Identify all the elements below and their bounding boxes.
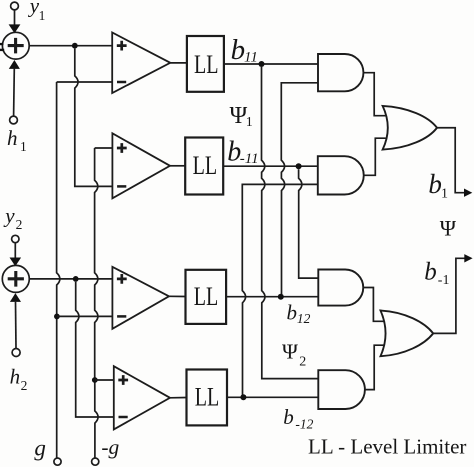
level limiter LL2: [185, 138, 223, 195]
OR gate O1: [383, 106, 437, 150]
wire y1 stem: [14, 10, 16, 25]
svg-text:12: 12: [297, 311, 311, 326]
wire -g node to U4 plus: [95, 379, 114, 381]
terminal h2: [12, 349, 20, 357]
svg-text:h: h: [10, 365, 21, 389]
wire s2 vertical to U4 minus (jog over y316): [76, 282, 114, 417]
terminal y1: [11, 2, 19, 10]
node b-11 junction: [296, 163, 302, 169]
svg-text:LL: LL: [194, 50, 219, 79]
level limiter LL3: [186, 270, 227, 324]
wire g line horizontal to U1 minus: [57, 81, 113, 83]
wire U1 to LL1: [170, 62, 187, 64]
wire h1 stem: [13, 69, 16, 117]
level limiter LL4: [187, 370, 228, 426]
svg-text:-12: -12: [295, 416, 313, 431]
node g to U3 minus: [54, 314, 60, 320]
node b12 junction: [278, 294, 284, 300]
wire -g line horizontal to U2 plus: [95, 147, 113, 149]
arrow b-1: [464, 254, 472, 262]
svg-text:1: 1: [20, 139, 27, 154]
terminal g: [54, 458, 61, 465]
wire G2 input2 from b-12 bus: [242, 184, 317, 397]
wire LL4 output b-12 to AND G4: [227, 396, 318, 398]
svg-text:1: 1: [246, 115, 253, 130]
wire U3 to LL3: [169, 295, 186, 297]
svg-text:LL: LL: [194, 282, 219, 311]
AND gate G1: [318, 54, 363, 91]
node s1 junction: [72, 43, 78, 49]
wire G3 output to OR O2 top: [363, 288, 384, 322]
svg-text:g: g: [34, 436, 46, 461]
svg-text:Ψ: Ψ: [440, 215, 457, 240]
terminal -g: [92, 458, 99, 465]
svg-text:b: b: [283, 405, 294, 429]
svg-text:b: b: [424, 259, 437, 286]
node b-12 junction: [240, 394, 246, 400]
svg-text:2: 2: [21, 378, 28, 393]
wire G2 output to OR O1 bottom: [364, 138, 386, 175]
wire LL3 output b12 to AND G3: [226, 296, 318, 298]
svg-text:b: b: [287, 301, 298, 325]
arrow b1: [464, 189, 472, 197]
svg-text:h: h: [7, 126, 18, 150]
wire U4 to LL4: [170, 397, 187, 399]
svg-text:Ψ: Ψ: [282, 340, 298, 364]
svg-text:2: 2: [16, 217, 23, 232]
wire G1 output to OR O1 top: [364, 73, 386, 116]
wire S2 output to comparator U3 +: [29, 278, 112, 280]
terminal y2: [12, 235, 19, 242]
svg-text:LL - Level Limiter: LL - Level Limiter: [308, 435, 466, 459]
wire O1 output to b1 arrow: [437, 128, 465, 193]
crop marks left edge: [0, 43, 3, 45]
wire y2 stem: [14, 243, 16, 259]
comparator U3: [112, 267, 169, 329]
arrow into summer S1 top: [9, 24, 21, 33]
AND gate G2: [318, 156, 364, 194]
wire h2 stem: [15, 302, 18, 349]
wire G4 output to OR O2 bottom: [365, 345, 384, 389]
node s2 junction: [73, 276, 79, 282]
wire LL2 output b-11 to AND G2: [223, 165, 318, 167]
wire S1 output to comparator U1 +: [29, 45, 112, 47]
svg-text:Ψ: Ψ: [230, 103, 248, 129]
summer S2: [2, 265, 29, 292]
comparator U2: [112, 133, 170, 198]
terminal h1: [10, 116, 18, 124]
node -g to U4 plus: [92, 377, 98, 383]
comparator U1: [112, 33, 170, 94]
node b11 junction: [259, 61, 265, 67]
OR gate O2: [381, 311, 434, 357]
svg-text:b: b: [428, 169, 442, 199]
wire b11 vertical bus to G4 input1 (jogs at 166,184,297): [262, 67, 319, 379]
svg-text:11: 11: [244, 50, 258, 66]
wire s1 vertical to U2 minus (jog over y82): [75, 49, 113, 187]
arrow into summer S2 top: [10, 258, 22, 267]
wire LL1 output b11 to AND G1: [224, 63, 318, 65]
wire G1 input2 from b12 bus: [281, 83, 318, 297]
svg-text:LL: LL: [193, 151, 218, 180]
summer S1: [2, 32, 29, 59]
svg-text:1: 1: [441, 187, 448, 202]
svg-text:-1: -1: [438, 273, 450, 288]
arrow into summer S1 bottom: [9, 60, 20, 69]
wire O2 output to b-1 arrow: [433, 258, 465, 333]
svg-text:-g: -g: [101, 435, 119, 459]
AND gate G3: [318, 270, 363, 306]
wire b-11 vertical bus to G3 input1 (jog at 184): [299, 169, 319, 278]
svg-text:LL: LL: [195, 383, 220, 412]
wire U2 to LL2: [170, 165, 185, 167]
svg-text:y: y: [3, 204, 15, 228]
comparator U4: [114, 366, 170, 429]
wire g vertical line (jog over y279, node at y316): [57, 82, 60, 458]
wire g node to U3 minus: [57, 315, 113, 317]
arrow into summer S2 bottom: [10, 293, 21, 302]
AND gate G4: [318, 370, 365, 409]
svg-text:-11: -11: [240, 151, 259, 167]
wire -g vertical line (jogs at 186,279,316,417; node at 380): [95, 148, 98, 458]
svg-text:2: 2: [299, 355, 306, 370]
svg-text:b: b: [231, 34, 246, 66]
level limiter LL1: [187, 36, 224, 92]
svg-text:1: 1: [39, 8, 46, 23]
